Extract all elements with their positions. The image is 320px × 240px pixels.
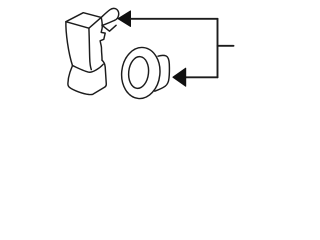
bracket top smile seam — [73, 64, 104, 72]
sensor right side zigzag profile — [100, 17, 105, 60]
arrow to grommet — [173, 68, 186, 86]
leader line top — [131, 18, 218, 20]
arrow to sensor — [118, 11, 131, 27]
grommet outer ellipse — [119, 46, 162, 101]
leader line bottom — [186, 76, 218, 78]
sensor box top face — [66, 13, 101, 29]
grommet boss flange — [155, 55, 170, 91]
label tick — [218, 45, 234, 47]
sensor box left front edge — [66, 22, 73, 66]
bracket plate outline — [68, 60, 106, 94]
connector pill top and cap — [101, 8, 118, 20]
sensor box front right edge — [89, 28, 91, 69]
connector pill bottom edge and lower wedge — [102, 20, 116, 31]
leader line vertical — [217, 19, 219, 78]
grommet inner ellipse — [127, 56, 150, 90]
